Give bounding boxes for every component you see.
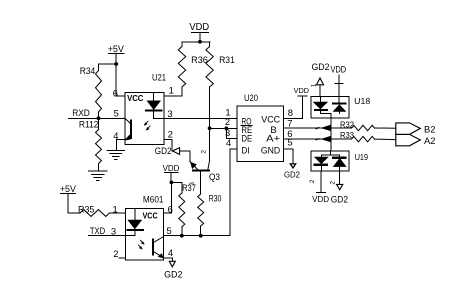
svg-text:B2: B2 bbox=[424, 124, 435, 135]
svg-text:VDD: VDD bbox=[189, 22, 209, 33]
svg-text:R32: R32 bbox=[340, 120, 354, 130]
svg-text:6: 6 bbox=[113, 87, 118, 98]
svg-text:DI: DI bbox=[241, 145, 249, 156]
svg-text:VDD: VDD bbox=[312, 194, 329, 204]
svg-text:7: 7 bbox=[287, 118, 292, 129]
svg-text:4: 4 bbox=[113, 130, 118, 141]
svg-text:VDD: VDD bbox=[163, 163, 180, 173]
svg-text:2: 2 bbox=[168, 128, 173, 139]
svg-text:2: 2 bbox=[330, 181, 337, 185]
svg-text:R36: R36 bbox=[191, 54, 208, 65]
svg-text:R37: R37 bbox=[182, 183, 196, 193]
svg-text:R33: R33 bbox=[340, 130, 354, 140]
svg-text:GD2: GD2 bbox=[331, 194, 348, 204]
svg-text:2: 2 bbox=[225, 116, 230, 127]
svg-text:R34: R34 bbox=[80, 65, 96, 76]
svg-text:2: 2 bbox=[201, 150, 208, 154]
svg-text:1: 1 bbox=[169, 85, 174, 96]
svg-text:VCC: VCC bbox=[261, 114, 280, 125]
svg-text:5: 5 bbox=[287, 137, 292, 148]
svg-text:1: 1 bbox=[310, 83, 317, 87]
svg-text:U18: U18 bbox=[354, 96, 370, 106]
svg-text:M601: M601 bbox=[143, 194, 164, 205]
svg-text:4: 4 bbox=[168, 247, 173, 258]
svg-text:U20: U20 bbox=[244, 92, 258, 103]
svg-text:Q3: Q3 bbox=[209, 172, 220, 182]
svg-text:3: 3 bbox=[111, 225, 116, 236]
svg-text:2: 2 bbox=[309, 179, 316, 183]
svg-text:VCC: VCC bbox=[127, 93, 143, 103]
svg-text:VDD: VDD bbox=[330, 65, 346, 75]
svg-text:VCC: VCC bbox=[143, 210, 158, 220]
svg-text:+5V: +5V bbox=[108, 43, 125, 54]
svg-text:U19: U19 bbox=[355, 152, 368, 162]
svg-text:4: 4 bbox=[226, 137, 231, 148]
svg-text:3: 3 bbox=[167, 108, 172, 119]
svg-text:A2: A2 bbox=[424, 135, 435, 146]
svg-text:VDD: VDD bbox=[294, 86, 310, 95]
svg-text:2: 2 bbox=[113, 248, 118, 259]
svg-text:+5V: +5V bbox=[60, 183, 77, 194]
svg-text:GD2: GD2 bbox=[284, 171, 300, 180]
svg-text:U21: U21 bbox=[152, 71, 166, 82]
svg-text:A+: A+ bbox=[266, 133, 280, 144]
svg-text:6: 6 bbox=[168, 204, 173, 215]
svg-text:R35: R35 bbox=[78, 205, 94, 215]
svg-text:GND: GND bbox=[261, 145, 280, 156]
svg-text:8: 8 bbox=[288, 107, 293, 118]
svg-text:R30: R30 bbox=[209, 194, 222, 204]
svg-text:R31: R31 bbox=[219, 54, 235, 65]
svg-text:GD2: GD2 bbox=[155, 146, 172, 156]
svg-text:GD2: GD2 bbox=[164, 270, 182, 280]
svg-text:RXD: RXD bbox=[72, 107, 90, 118]
svg-text:TXD: TXD bbox=[90, 226, 105, 236]
svg-text:R112: R112 bbox=[79, 119, 99, 130]
svg-text:GD2: GD2 bbox=[312, 62, 330, 72]
svg-text:5: 5 bbox=[166, 225, 171, 236]
svg-text:5: 5 bbox=[114, 108, 119, 119]
svg-text:DE: DE bbox=[241, 133, 252, 144]
svg-text:1: 1 bbox=[112, 204, 117, 215]
